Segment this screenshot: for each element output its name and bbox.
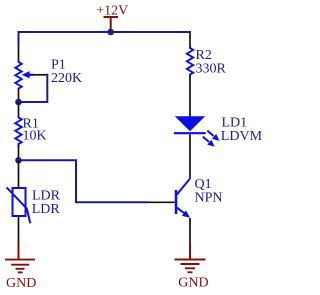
transistor Q1 [176, 179, 190, 218]
LED LD1 [174, 116, 220, 147]
+12V power symbol [96, 4, 128, 32]
svg-text:NPN: NPN [195, 191, 223, 206]
junction node P1/R1 [15, 99, 22, 106]
pin LDR top [18, 160, 20, 188]
svg-text:LDVM: LDVM [221, 129, 263, 144]
svg-text:330R: 330R [196, 61, 227, 76]
junction node R1/LDR/base [15, 157, 22, 164]
wire LED to Q1 collector [189, 134, 191, 179]
svg-text:220K: 220K [51, 71, 82, 86]
ground GND right [175, 244, 209, 291]
pin R1 top [18, 102, 20, 116]
pin R1 bottom [18, 146, 20, 160]
resistor R2 [187, 46, 193, 78]
wire base net [19, 160, 149, 202]
wire wiper loop to lower node [20, 74, 47, 102]
wire top rail [19, 32, 191, 46]
pin Q1 base [148, 201, 175, 203]
svg-text:GND: GND [178, 276, 208, 291]
svg-text:GND: GND [6, 276, 36, 291]
junction node at +12V tap [107, 29, 114, 36]
pin P1 bottom [18, 89, 20, 102]
resistor R1 [15, 115, 21, 147]
svg-text:LDR: LDR [32, 202, 61, 217]
pin LDR bottom [18, 216, 20, 246]
pin P1 wiper [33, 74, 47, 76]
potentiometer P1 [15, 60, 33, 89]
svg-text:10K: 10K [23, 129, 47, 144]
ground GND left [5, 246, 36, 292]
wire R2 to LED [189, 76, 191, 117]
pin Q1 emitter wire [189, 218, 191, 244]
pin P1 top [18, 45, 20, 61]
photoresistor LDR [7, 187, 31, 223]
pin R2 top [189, 31, 191, 46]
